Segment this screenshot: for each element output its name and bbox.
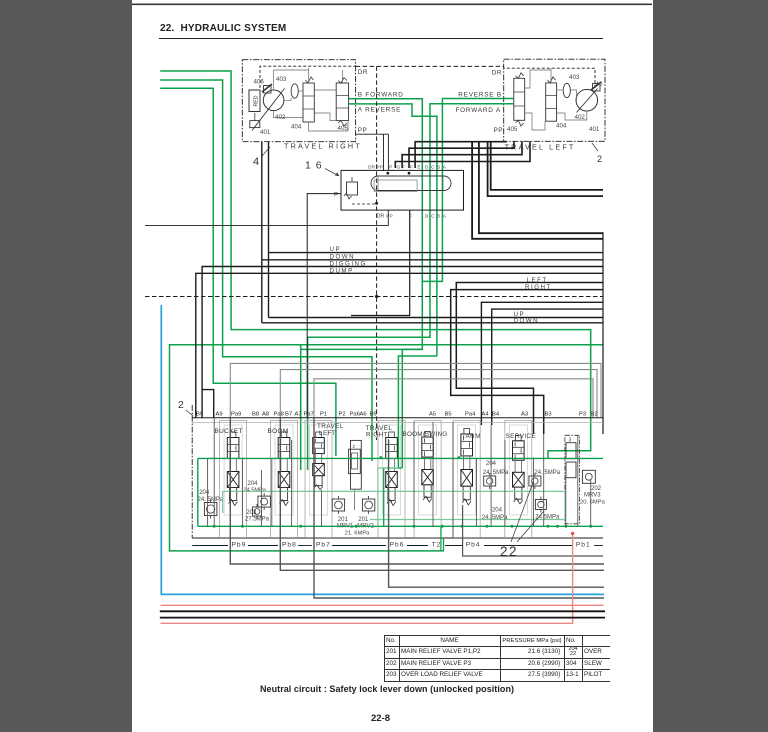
wire bottom black rail 2 — [160, 617, 605, 619]
main control valve bottom border — [192, 537, 603, 539]
svg-text:P: P — [389, 165, 392, 171]
wire green long rail y345 with branch loop to bottom left — [170, 345, 604, 551]
wire green REVERSE B (left motor) — [422, 99, 514, 282]
wire green T2 drop — [440, 526, 442, 551]
MRV3 relief valve — [582, 470, 595, 483]
spool valve 405 (travel left) — [514, 78, 525, 120]
junction dot drain cross — [375, 295, 378, 298]
junction dot pilot top — [386, 172, 389, 175]
relief valve MRV1 — [332, 496, 344, 514]
svg-text:A: A — [443, 214, 447, 220]
wire green pilot 2 (left to valve Pa6) — [160, 80, 372, 461]
page number — [371, 713, 390, 724]
wire DOWN rail — [262, 259, 603, 261]
svg-text:Pb6: Pb6 — [390, 541, 405, 548]
wire swing rail a — [481, 302, 603, 425]
internal pipework travel left — [557, 89, 564, 91]
main control valve left dash-dot border — [191, 405, 193, 538]
counterbalance valve 404 (travel right) — [303, 83, 314, 122]
svg-text:24.5MPa: 24.5MPa — [244, 487, 267, 493]
svg-text:404: 404 — [291, 124, 302, 131]
svg-text:E: E — [417, 165, 420, 171]
pilot manifold 16 outline — [341, 170, 464, 210]
valve spool ARM — [461, 429, 473, 506]
spool valve 405 (travel right) — [336, 83, 348, 121]
svg-text:A8: A8 — [262, 412, 269, 418]
svg-text:FORWARD A: FORWARD A — [455, 107, 501, 114]
wire DIGGING rail — [202, 390, 214, 418]
svg-text:202: 202 — [591, 486, 602, 492]
wire green B FORWARD (right motor) down to valve — [301, 99, 423, 470]
svg-text:B5: B5 — [445, 412, 452, 418]
svg-text:1 6: 1 6 — [305, 160, 323, 172]
wire green sub rail C — [223, 491, 565, 520]
check valve (travel left) — [563, 83, 570, 97]
gray line under ports — [192, 422, 603, 424]
svg-text:Pb9: Pb9 — [232, 541, 247, 548]
svg-text:B: B — [437, 214, 440, 220]
svg-text:405: 405 — [507, 126, 518, 133]
svg-text:204: 204 — [248, 481, 259, 487]
green junction railA — [379, 456, 382, 459]
svg-text:DUMP: DUMP — [330, 267, 354, 274]
svg-text:B2: B2 — [591, 412, 598, 418]
green junction — [556, 525, 559, 528]
wire green elbows below travel right — [384, 468, 403, 526]
relief valve 204 (service) — [535, 497, 546, 513]
svg-text:BUCKET: BUCKET — [215, 428, 243, 435]
green junction — [299, 525, 302, 528]
wire dashed drain DR between motors — [356, 65, 504, 67]
wire red rail 2 — [161, 604, 604, 606]
relief valve MRV2 — [362, 496, 374, 514]
svg-text:C: C — [431, 165, 435, 171]
svg-text:401: 401 — [589, 126, 600, 133]
svg-text:2: 2 — [178, 399, 184, 411]
wire boom spool drop b — [261, 142, 263, 323]
green junction railA2 — [457, 456, 460, 459]
misc vertical connectors in valve block — [207, 458, 209, 526]
svg-text:Pb4: Pb4 — [466, 541, 481, 548]
svg-text:C: C — [431, 214, 435, 220]
wire boom spool drop a — [268, 142, 270, 318]
wire green sub rail D — [370, 519, 565, 521]
relief valve 203 — [253, 504, 262, 519]
green junction — [486, 525, 489, 528]
svg-text:PP: PP — [386, 214, 392, 220]
svg-text:B3: B3 — [545, 412, 552, 418]
svg-text:B7: B7 — [285, 412, 292, 418]
wire UP rail — [269, 252, 604, 254]
wire rail y317.5 — [269, 317, 604, 319]
svg-text:B6: B6 — [370, 412, 377, 418]
svg-text:D: D — [425, 165, 429, 171]
wire drop Pb9 — [230, 418, 604, 564]
relief valve 204 (arm b) — [529, 473, 541, 489]
wire port link 1 — [415, 141, 506, 168]
wire travel-left drop to rail y189.9 — [491, 141, 603, 190]
svg-text:TRAVEL RIGHT: TRAVEL RIGHT — [284, 142, 362, 151]
page top border line — [132, 3, 652, 5]
travel motor unit TRAVEL LEFT enclosure — [504, 59, 605, 141]
svg-text:402: 402 — [275, 114, 286, 121]
svg-text:UP: UP — [330, 246, 342, 253]
svg-text:F: F — [409, 214, 412, 220]
svg-text:Pa4: Pa4 — [465, 412, 476, 418]
section header 22. HYDRAULIC SYSTEM — [160, 23, 286, 34]
green junction — [511, 525, 514, 528]
wire drop Pb4 — [463, 505, 603, 556]
wire green pilot 3 (left to valve P1) — [160, 88, 336, 456]
wire drop Pb8 — [280, 418, 604, 571]
wire LEFT rail with drop to swing section — [456, 283, 603, 435]
svg-text:Pa8: Pa8 — [274, 412, 284, 418]
svg-text:3: 3 — [569, 438, 572, 444]
wire port link 2 — [409, 141, 514, 168]
wire port link 4 — [395, 141, 530, 168]
svg-text:DR: DR — [377, 214, 385, 220]
wire drop Pb7 — [314, 418, 604, 598]
document page background — [132, 0, 653, 732]
wire travel-left drop to rail y196.1 — [488, 141, 603, 196]
wire PP feed left — [356, 133, 389, 135]
check valve (travel right) — [291, 84, 298, 98]
pilot reducing valve (P) — [347, 182, 358, 195]
svg-text:201: 201 — [338, 517, 349, 523]
green junction — [241, 525, 244, 528]
wire DUMP rail — [196, 273, 603, 417]
svg-text:A REVERSE: A REVERSE — [358, 107, 401, 114]
svg-text:DOWN: DOWN — [514, 318, 540, 325]
svg-text:DR: DR — [492, 70, 502, 77]
svg-text:24. 5MPa: 24. 5MPa — [198, 497, 224, 503]
svg-text:MRV3: MRV3 — [584, 493, 601, 499]
bottom label separator segments — [192, 545, 228, 547]
svg-text:4: 4 — [253, 156, 259, 168]
svg-text:T2: T2 — [432, 541, 442, 548]
svg-text:A9: A9 — [216, 412, 223, 418]
wire green jog to valve B4 — [402, 349, 422, 468]
main control valve 2 top border — [192, 417, 603, 419]
gauge 406 symbol (travel left) — [593, 84, 601, 92]
green junction — [589, 525, 592, 528]
svg-text:A7: A7 — [295, 412, 302, 418]
svg-text:G: G — [397, 165, 401, 171]
svg-text:203: 203 — [246, 510, 257, 516]
svg-text:405: 405 — [338, 125, 349, 132]
inner drain dashed line travel left — [504, 68, 595, 88]
svg-text:B9: B9 — [196, 412, 203, 418]
junction dot on drain — [375, 202, 378, 205]
green junction — [441, 525, 444, 528]
valve spool BOOM — [278, 432, 290, 506]
svg-text:DOWN: DOWN — [330, 253, 356, 260]
valve spool TRAVEL LEFT — [313, 432, 325, 490]
hydraulic motor 402 (travel right) — [263, 90, 284, 111]
wire T line — [145, 210, 388, 225]
svg-text:DR: DR — [368, 165, 375, 171]
svg-text:P3: P3 — [579, 412, 586, 418]
svg-text:PP: PP — [358, 127, 368, 134]
caption — [260, 684, 514, 694]
svg-text:20. 6MPa: 20. 6MPa — [580, 499, 606, 505]
wire gray rail 3 — [314, 379, 593, 418]
svg-text:D: D — [425, 214, 429, 220]
wire right clip vertical — [602, 232, 604, 434]
svg-text:40: 40 — [596, 81, 603, 88]
wire P feed line — [307, 194, 341, 418]
wire travel-left drop to rail y238.8 — [472, 141, 603, 239]
svg-text:403: 403 — [569, 74, 580, 81]
gray section frames — [220, 421, 247, 538]
center pilot check unit — [351, 440, 362, 489]
svg-text:Pb1: Pb1 — [576, 541, 591, 548]
svg-text:22: 22 — [500, 544, 518, 559]
red arrow dot — [571, 532, 574, 535]
callout 2 (travel left) — [592, 143, 598, 151]
wire gray rail 2 — [280, 370, 597, 418]
green branch joint at x300.7 — [300, 345, 302, 350]
svg-text:TRAVEL LEFT: TRAVEL LEFT — [505, 142, 576, 151]
green junction — [355, 525, 358, 528]
wire green pilot 1 (top-left to valve B7 via long loop) — [160, 71, 591, 458]
wire dashed drain horizontal y296 — [145, 296, 603, 298]
svg-text:RED: RED — [254, 95, 260, 106]
svg-text:A6: A6 — [360, 412, 367, 418]
wire green A REVERSE (right motor) down with jog — [349, 104, 437, 356]
wire dashed drain vertical — [376, 66, 378, 440]
svg-text:A4: A4 — [482, 412, 490, 418]
relief valve 204 (boom) — [258, 493, 271, 510]
tank 401 — [250, 121, 260, 128]
svg-text:PP: PP — [493, 127, 503, 134]
plate RED — [249, 90, 260, 112]
pressure table — [384, 635, 610, 682]
wire green to valve Pa4 — [398, 356, 437, 468]
wire blue pilot supply — [161, 305, 604, 594]
green junction — [564, 525, 567, 528]
pilot manifold capsule — [371, 176, 451, 191]
valve spool BOOM-SWING — [422, 432, 434, 503]
wire green FORWARD A (left motor) — [308, 104, 514, 470]
wire red pilot Pb1 — [161, 532, 573, 623]
relief valve 204 (bucket) — [204, 500, 217, 519]
svg-text:DIGGING: DIGGING — [330, 260, 367, 267]
wire green left loop vertical — [197, 458, 199, 526]
svg-text:24. 5MPa: 24. 5MPa — [534, 470, 560, 476]
relief valve 204 (arm a) — [484, 473, 496, 489]
wire PP drop a — [383, 134, 385, 170]
svg-text:A: A — [443, 165, 447, 171]
svg-text:401: 401 — [260, 129, 271, 136]
hydraulic motor 402 (travel left) — [576, 89, 598, 111]
wire bottom black rail 1 — [160, 610, 605, 612]
svg-text:Pa7: Pa7 — [304, 412, 314, 418]
svg-text:403: 403 — [276, 76, 287, 83]
wire RIGHT rail with drop to swing section — [451, 290, 603, 434]
svg-text:PP: PP — [377, 165, 383, 171]
svg-text:REVERSE B: REVERSE B — [458, 91, 502, 98]
svg-text:Pb7: Pb7 — [316, 541, 331, 548]
wire travel-left drop to rail y233.2 — [479, 141, 603, 233]
svg-text:DR: DR — [358, 69, 368, 76]
svg-text:P2: P2 — [339, 412, 346, 418]
wire capsule drop to boom rails — [351, 210, 410, 315]
svg-text:204: 204 — [199, 490, 210, 496]
green junction — [547, 525, 550, 528]
svg-text:204: 204 — [492, 508, 503, 514]
svg-text:RIGHT: RIGHT — [525, 284, 552, 291]
svg-text:LEFT: LEFT — [527, 277, 548, 284]
svg-text:406: 406 — [254, 79, 265, 86]
svg-text:B FORWARD: B FORWARD — [358, 91, 404, 98]
wire green rail A — [198, 457, 603, 459]
valve spool SERVICE — [513, 435, 525, 504]
svg-text:Pa9: Pa9 — [231, 412, 241, 418]
wire drop Pb6 — [389, 440, 604, 587]
svg-text:201: 201 — [358, 517, 369, 523]
wire gray rail 1 — [230, 363, 601, 417]
svg-text:F: F — [402, 165, 405, 171]
wire green rail B — [198, 525, 603, 527]
counterbalance valve 404 (travel left) — [546, 83, 557, 121]
svg-text:RIGHT: RIGHT — [366, 432, 388, 439]
wire PP drop b — [387, 134, 389, 170]
inner drain dashed line travel right — [260, 66, 356, 88]
svg-text:TRAVEL: TRAVEL — [317, 423, 344, 430]
svg-text:P: P — [334, 192, 338, 199]
svg-text:A3: A3 — [521, 412, 528, 418]
valve spool BUCKET — [227, 432, 239, 506]
wire port link 3 — [402, 141, 522, 168]
travel motor unit 4 TRAVEL RIGHT enclosure — [242, 60, 355, 142]
svg-text:P1: P1 — [320, 412, 327, 418]
wire swing rail b — [492, 309, 603, 425]
svg-text:B8: B8 — [252, 412, 259, 418]
green junction — [213, 525, 216, 528]
dashed link P valve to DR — [352, 203, 377, 205]
svg-text:A5: A5 — [429, 412, 436, 418]
svg-text:F: F — [410, 165, 413, 171]
internal pipework travel right — [284, 98, 291, 100]
svg-text:2: 2 — [597, 154, 602, 164]
svg-text:402: 402 — [575, 114, 586, 121]
valve spool TRAVEL RIGHT — [386, 432, 398, 506]
svg-text:Pb8: Pb8 — [282, 541, 297, 548]
green junction — [461, 525, 464, 528]
svg-text:B: B — [437, 165, 440, 171]
svg-text:404: 404 — [556, 123, 567, 130]
green junction — [413, 525, 416, 528]
svg-text:B4: B4 — [492, 412, 500, 418]
svg-text:27.5MPa: 27.5MPa — [245, 517, 270, 523]
capsule inner lines — [377, 176, 379, 191]
junction dot pilot top2 — [408, 172, 411, 175]
svg-text:21. 6MPa: 21. 6MPa — [345, 531, 371, 537]
svg-text:Pa6: Pa6 — [350, 412, 360, 418]
wire rail y322.8 — [262, 322, 603, 324]
gauge 406 symbol — [264, 86, 272, 94]
right service unit dash-dot box — [565, 435, 580, 524]
